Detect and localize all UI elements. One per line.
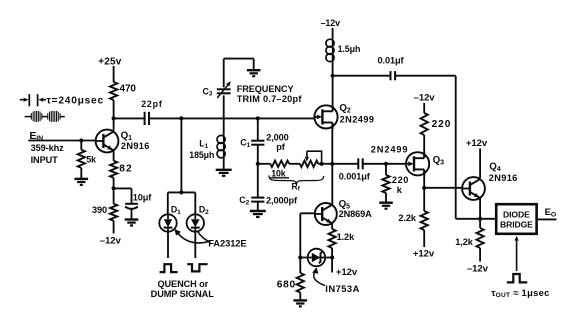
svg-text:–12v: –12v — [100, 236, 122, 247]
svg-text:INPUT: INPUT — [31, 155, 59, 165]
svg-text:+12v: +12v — [466, 138, 488, 149]
svg-text:10μf: 10μf — [133, 193, 153, 203]
capacitor 10uf electrolytic — [114, 187, 132, 189]
node Q1 collector junction — [112, 116, 116, 120]
input RF burst waveform — [25, 111, 65, 122]
wire Q1 collector to top rail — [113, 118, 115, 130]
node input/5k junction — [79, 138, 83, 142]
transistor Q3 2N2499 JFET — [406, 152, 429, 176]
diode D2 FA2312E — [187, 214, 204, 231]
svg-text:185μh: 185μh — [189, 150, 214, 160]
wire main tank rail — [114, 117, 145, 119]
svg-text:1.2k: 1.2k — [337, 232, 355, 242]
resistor 10k — [270, 161, 289, 167]
svg-text:DIODE: DIODE — [503, 210, 530, 220]
svg-text:IN753A: IN753A — [325, 283, 360, 294]
svg-text:22pf: 22pf — [141, 99, 163, 109]
ground below C2 — [250, 211, 266, 217]
transistor Q5 2N869A — [315, 203, 337, 225]
wire Q1 emitter — [113, 151, 115, 161]
svg-text:2N869A: 2N869A — [339, 209, 373, 219]
label FA2312E with pointer arrows — [177, 232, 210, 243]
svg-text:FREQUENCY: FREQUENCY — [237, 84, 294, 94]
resistor 220k — [385, 164, 387, 175]
wire Rf line — [258, 163, 271, 165]
capacitor 22pf — [145, 112, 149, 125]
svg-text:82: 82 — [119, 163, 133, 174]
svg-text:+25v: +25v — [98, 56, 122, 67]
wire top rail to 0.01uf — [333, 75, 391, 77]
resistor 5k — [80, 141, 82, 150]
svg-text:–12v: –12v — [467, 263, 489, 274]
node quench branch — [179, 116, 183, 120]
svg-text:2N2499: 2N2499 — [340, 114, 375, 124]
svg-text:5k: 5k — [86, 155, 96, 165]
wire C3 to ground — [224, 58, 254, 60]
svg-text:DUMP SIGNAL: DUMP SIGNAL — [151, 289, 215, 299]
transistor Q1 2N916 — [96, 130, 119, 153]
capacitor C1 2000pf — [257, 118, 259, 140]
node emitter bypass junction — [112, 186, 116, 190]
svg-text:0.001μf: 0.001μf — [339, 172, 371, 182]
ground below 10uf — [125, 220, 139, 226]
node Q3 source junction — [422, 186, 426, 190]
svg-text:1.5μh: 1.5μh — [338, 44, 361, 54]
node zener cathode junction — [330, 255, 334, 259]
capacitor 0.01uf — [391, 71, 396, 80]
supply +12v (zener) — [331, 258, 333, 273]
svg-text:pf: pf — [276, 142, 286, 152]
node quench tee — [179, 190, 183, 194]
node C1/C2/Rf junction — [256, 162, 260, 166]
svg-text:220: 220 — [392, 175, 409, 185]
resistor 470 — [113, 66, 115, 82]
node pot wiper junction — [320, 162, 324, 166]
wire below D2 — [194, 232, 196, 258]
dump negative pulse symbol — [187, 264, 207, 271]
svg-text:–12v: –12v — [321, 18, 341, 28]
ground below 5k — [75, 179, 89, 185]
resistor 82 — [110, 161, 117, 178]
svg-text:2N916: 2N916 — [121, 141, 150, 151]
node Q4 emitter junction — [478, 217, 482, 221]
wire below D1 — [167, 232, 169, 258]
svg-text:BRIDGE: BRIDGE — [500, 219, 533, 229]
resistor 1.2k (Q5 emitter) — [331, 223, 333, 229]
wire Q4 emitter — [479, 198, 481, 219]
svg-text:390: 390 — [92, 205, 107, 215]
ground below 680 — [294, 300, 308, 306]
node oscillator output junction — [330, 162, 334, 166]
resistor 390 — [113, 188, 115, 203]
svg-text:2N2499: 2N2499 — [371, 145, 409, 155]
resistor 220 — [423, 103, 425, 113]
svg-text:QUENCH or: QUENCH or — [157, 279, 208, 289]
svg-text:0.01μf: 0.01μf — [378, 56, 405, 66]
brace Rf — [269, 175, 324, 183]
wire input line — [28, 140, 96, 142]
svg-text:470: 470 — [120, 84, 137, 95]
wire Rf junction down to Q5 collector — [331, 164, 333, 205]
node zener junction — [298, 255, 302, 259]
ground above (C3) — [247, 70, 261, 76]
zener diode IN753A — [300, 257, 332, 259]
wire Q3 source — [423, 170, 425, 188]
svg-text:+12v: +12v — [413, 249, 435, 260]
potentiometer Rf — [300, 161, 318, 167]
transistor Q4 2N916 — [462, 177, 485, 200]
node E_O output — [537, 218, 557, 220]
transistor Q2 2N2499 JFET — [314, 105, 337, 129]
quench positive pulse symbol — [160, 264, 178, 272]
svg-text:680: 680 — [277, 279, 296, 290]
diode bridge block — [496, 204, 536, 234]
node tank top junction — [331, 74, 335, 78]
node C1 branch — [256, 116, 260, 120]
svg-text:1,2k: 1,2k — [455, 237, 473, 247]
resistor 680 — [299, 258, 301, 274]
svg-text:FA2312E: FA2312E — [208, 237, 246, 248]
svg-text:TRIM 0.7–20pf: TRIM 0.7–20pf — [237, 94, 303, 104]
svg-text:2,000: 2,000 — [266, 132, 289, 142]
inductor L1 185uh — [223, 118, 225, 135]
inductor 1.5uh — [332, 28, 334, 39]
label IN753A with pointer — [314, 271, 325, 286]
wire 0.01uf to right rail — [395, 75, 455, 77]
resistor 1.2k (output) — [479, 219, 481, 228]
svg-text:2,000pf: 2,000pf — [266, 195, 298, 205]
output pulse symbol — [507, 274, 527, 282]
ground below L1 — [216, 170, 232, 176]
diode D1 FA2312E — [159, 214, 176, 231]
capacitor 0.001uf — [332, 163, 358, 165]
svg-text:359-khz: 359-khz — [31, 143, 65, 153]
resistor 2.2k — [423, 188, 425, 211]
svg-text:2.2k: 2.2k — [398, 213, 416, 223]
svg-text:–12v: –12v — [414, 93, 436, 104]
svg-text:2N916: 2N916 — [489, 173, 518, 183]
capacitor C3 variable, frequency trim — [223, 95, 225, 118]
wire Q2 source — [331, 123, 333, 164]
svg-text:τ=240μsec: τ=240μsec — [46, 95, 103, 106]
wire tank rail continued — [149, 117, 315, 119]
gating pulse arrow into bridge — [516, 241, 518, 271]
wire Q2 drain — [332, 76, 334, 105]
wire quench branch — [180, 118, 182, 192]
svg-text:+12v: +12v — [336, 267, 358, 278]
svg-text:10k: 10k — [271, 168, 286, 178]
node 220k junction — [384, 162, 388, 166]
input pulse-width marker tau=240usec — [20, 94, 104, 106]
wire Q5 base — [300, 212, 315, 214]
svg-text:220: 220 — [432, 119, 452, 130]
ground below 220k — [379, 203, 393, 209]
